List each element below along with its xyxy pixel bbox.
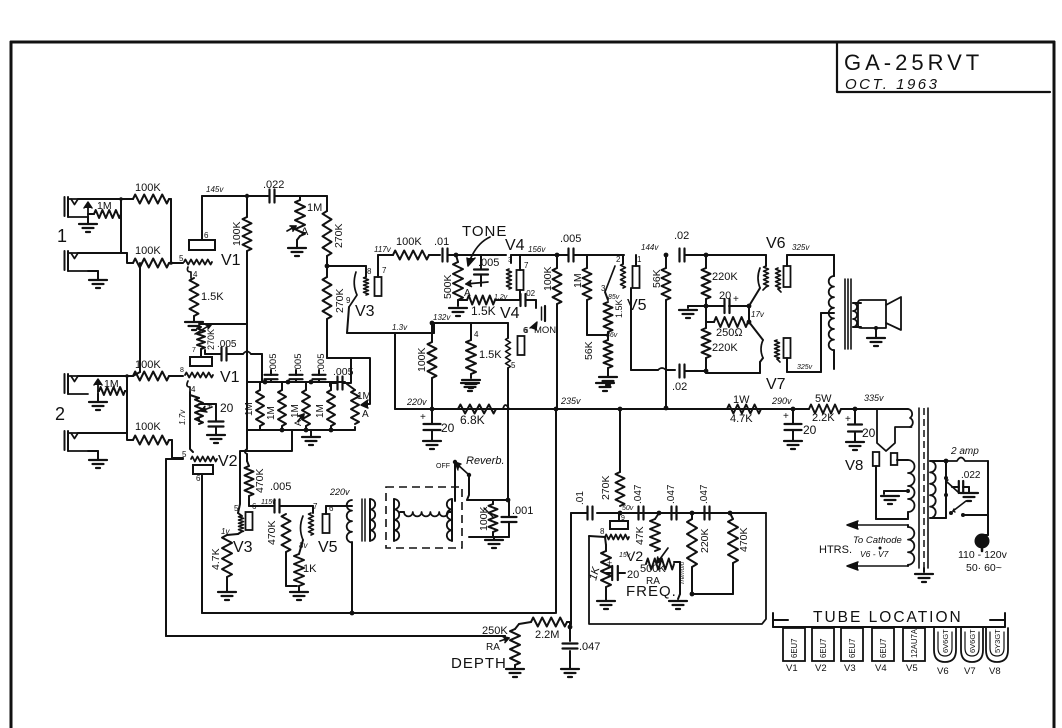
svg-text:100K: 100K — [135, 359, 161, 371]
wire plate up — [378, 255, 393, 277]
svg-text:V2: V2 — [815, 663, 827, 674]
wire bank right — [343, 358, 370, 408]
capacitor .005 bank1 — [265, 354, 280, 383]
svg-text:.047: .047 — [699, 484, 710, 504]
resistor 1M b3 — [290, 390, 310, 426]
wire — [607, 332, 609, 340]
wire — [88, 199, 121, 214]
svg-text:V6: V6 — [937, 666, 949, 677]
svg-text:1: 1 — [637, 255, 642, 264]
ground v1b — [207, 435, 225, 443]
jack J1a — [65, 197, 89, 217]
svg-text:2: 2 — [616, 255, 621, 264]
svg-text:.005: .005 — [293, 354, 304, 373]
capacitor .022 — [263, 179, 284, 203]
wire — [169, 375, 183, 377]
svg-text:V5: V5 — [318, 539, 338, 556]
wire — [587, 255, 608, 335]
resistor 4.7K 1W — [727, 394, 761, 425]
tube V2 6EU7 — [812, 628, 834, 674]
svg-text:HTRS.: HTRS. — [819, 544, 852, 556]
svg-text:6EU7: 6EU7 — [790, 638, 799, 658]
vertical x202 to reverb return — [202, 611, 555, 616]
svg-text:4.7K: 4.7K — [730, 413, 753, 425]
ground — [79, 217, 97, 232]
svg-text:7: 7 — [192, 347, 196, 354]
triode V4a cathode — [517, 255, 530, 290]
svg-text:A: A — [301, 226, 309, 238]
svg-text:1W: 1W — [733, 394, 750, 406]
svg-text:5: 5 — [234, 504, 239, 513]
wire — [526, 300, 536, 308]
svg-text:+: + — [607, 558, 612, 568]
wire — [705, 358, 707, 373]
jack J2b — [65, 431, 89, 451]
label RA depth — [486, 642, 500, 653]
wire box top grid — [589, 536, 605, 537]
resistor 100K reverb — [478, 504, 498, 532]
wire 132v line — [433, 313, 508, 323]
svg-text:.02: .02 — [672, 381, 687, 393]
svg-text:1K: 1K — [303, 563, 317, 575]
wire — [78, 376, 133, 440]
ground 022 — [960, 493, 978, 501]
svg-text:100K: 100K — [416, 347, 428, 372]
power core — [919, 408, 928, 568]
ground 047 — [561, 669, 579, 677]
resistor 1.5K V4b — [466, 330, 502, 374]
svg-text:+: + — [733, 294, 739, 305]
b+ rail left — [395, 407, 727, 412]
label 15v — [619, 552, 631, 559]
resistor 1K — [294, 554, 317, 586]
wire hop 508 — [503, 405, 509, 409]
ground freq — [669, 601, 687, 609]
wire — [169, 440, 183, 458]
svg-text:5W: 5W — [815, 393, 832, 405]
triode V6 plate — [784, 255, 791, 287]
svg-text:6EU7: 6EU7 — [879, 638, 888, 658]
wire grid V3a — [327, 266, 372, 277]
wire to V6 grid — [706, 255, 766, 266]
triode V2a plate — [193, 465, 213, 483]
wire 100K down — [246, 251, 248, 430]
triode V5a grid — [616, 255, 626, 288]
wire v5b plate — [326, 487, 350, 514]
svg-text:2.2K: 2.2K — [812, 412, 835, 424]
svg-text:V1: V1 — [220, 369, 240, 386]
wire primary bottom — [930, 513, 946, 518]
tone arrow — [467, 237, 490, 266]
capacitor .005 v1b — [205, 339, 237, 361]
tank coil right — [447, 499, 452, 541]
ground pot — [288, 236, 306, 256]
label V6 — [766, 235, 810, 252]
svg-text:1.5K: 1.5K — [479, 349, 502, 361]
svg-text:5: 5 — [511, 361, 516, 370]
jack J2a — [65, 374, 89, 394]
svg-text:V1: V1 — [221, 252, 241, 269]
capacitor 20 vib — [606, 558, 639, 581]
label V7 — [766, 364, 813, 393]
resistor 470K v3b — [266, 514, 291, 552]
resistor 56K plate — [651, 268, 671, 300]
svg-text:.001: .001 — [512, 505, 533, 517]
tube V3 6EU7 — [841, 628, 863, 674]
svg-text:V3: V3 — [233, 539, 253, 556]
ground top b — [596, 383, 614, 391]
capacitor .047 vib3 — [699, 484, 710, 519]
svg-text:5: 5 — [182, 450, 187, 459]
svg-text:+: + — [845, 414, 851, 425]
svg-text:1M: 1M — [266, 406, 277, 420]
svg-text:220v: 220v — [329, 487, 350, 497]
wire — [431, 409, 433, 440]
ground depth — [506, 669, 524, 677]
output transformer secondary — [853, 303, 857, 327]
wire to V1 grid — [169, 261, 183, 265]
svg-text:15v: 15v — [619, 552, 631, 559]
freq box — [589, 513, 766, 624]
resistor 100K V1 plate — [231, 217, 252, 251]
rectifier V8 plate — [877, 409, 911, 451]
label V2 — [218, 453, 238, 470]
resistor 1.5K V4a — [467, 296, 496, 319]
triode V4b grid — [506, 338, 517, 370]
svg-text:20: 20 — [441, 421, 455, 435]
ground — [599, 368, 617, 385]
svg-text:100K: 100K — [135, 245, 161, 257]
svg-text:1.3v: 1.3v — [392, 323, 408, 332]
capacitor .005 v3b — [261, 481, 291, 513]
tube location bar — [773, 613, 1005, 627]
svg-text:335v: 335v — [864, 393, 884, 403]
svg-text:4: 4 — [191, 385, 196, 394]
wire — [876, 460, 908, 519]
capacitor .022 line — [952, 470, 981, 493]
wire — [98, 376, 127, 391]
svg-text:V4: V4 — [500, 305, 520, 322]
svg-text:A: A — [362, 409, 369, 420]
label 335v — [864, 393, 884, 403]
switch wire — [945, 461, 947, 513]
triode V3b grid — [234, 504, 244, 534]
ground fb — [679, 306, 706, 318]
svg-text:RA: RA — [486, 642, 500, 653]
svg-text:1.2v: 1.2v — [494, 294, 508, 301]
svg-text:+: + — [420, 412, 426, 423]
svg-text:270K: 270K — [600, 475, 612, 500]
svg-text:V8: V8 — [989, 666, 1001, 677]
triode V6 screen — [776, 268, 782, 292]
svg-text:V3: V3 — [355, 303, 375, 320]
wire plate rail — [202, 195, 268, 197]
svg-text:V6 - V7: V6 - V7 — [860, 549, 889, 559]
svg-text:.022: .022 — [961, 470, 981, 481]
ground — [218, 592, 236, 600]
wire vib line — [597, 511, 766, 516]
triode V5a cathode — [601, 266, 615, 293]
capacitor .047 vib1 — [633, 484, 644, 519]
pot 1M A — [287, 200, 322, 238]
resistor 6.8K — [458, 405, 496, 428]
svg-text:.047: .047 — [579, 641, 600, 653]
label OFF — [436, 463, 450, 470]
svg-text:5Y3GT: 5Y3GT — [993, 629, 1002, 653]
svg-text:110 - 120v: 110 - 120v — [958, 549, 1008, 561]
wire — [327, 266, 351, 358]
heater arrows — [847, 521, 908, 570]
resistor 1M ch1 — [94, 200, 121, 218]
label 220v — [406, 397, 427, 407]
title text GA-25RVT — [844, 50, 983, 75]
label 117v — [374, 245, 392, 254]
resistor cathode shared — [190, 395, 212, 424]
capacitor 20 first — [420, 412, 455, 435]
svg-text:1.5K: 1.5K — [201, 291, 224, 303]
wire bank feed down — [245, 430, 249, 466]
capacitor .047 vib2 — [666, 484, 677, 519]
wire v3b grid — [221, 527, 230, 536]
svg-text:1.5K: 1.5K — [471, 304, 496, 318]
capacitor 20 second — [783, 411, 817, 437]
svg-text:220K: 220K — [712, 342, 738, 354]
svg-text:V1: V1 — [786, 663, 798, 674]
svg-text:6: 6 — [196, 474, 201, 483]
label 50-60 — [966, 562, 1002, 574]
svg-text:250Ω: 250Ω — [716, 327, 743, 339]
V2b grid — [600, 527, 629, 540]
pot 250K depth — [500, 629, 520, 665]
wire pi out — [631, 288, 675, 370]
power hv top — [877, 409, 913, 427]
triode V5a plate — [633, 255, 643, 288]
wire — [567, 622, 572, 629]
capacitor .005 bank4 — [330, 366, 354, 390]
tube location header — [813, 609, 963, 626]
label 156v — [528, 245, 546, 254]
resistor 1M b5 — [347, 384, 371, 424]
tube V1 6EU7 — [783, 628, 805, 674]
resistor 56K tail — [583, 340, 613, 368]
label V1b — [220, 369, 240, 386]
capacitor 20 third — [845, 414, 876, 440]
capacitor .02 mon — [521, 289, 536, 306]
triode V4b cathode — [518, 326, 530, 355]
label 86v — [606, 332, 618, 339]
ground — [88, 271, 107, 288]
svg-text:220K: 220K — [712, 271, 738, 283]
svg-text:144v: 144v — [641, 243, 659, 252]
triode V1a plate — [189, 231, 215, 250]
resistor 470K vib — [728, 513, 750, 563]
reverb switch — [453, 460, 471, 501]
output transformer primary — [829, 255, 834, 369]
svg-text:To Cathode: To Cathode — [853, 535, 902, 546]
svg-text:.01: .01 — [575, 491, 586, 505]
label HTRS — [819, 544, 852, 556]
fuse 2 amp — [946, 446, 988, 461]
pot 500K freq — [640, 548, 674, 587]
spring inductor — [400, 512, 452, 516]
label 145v — [206, 185, 224, 194]
svg-text:OCT. 1963: OCT. 1963 — [845, 76, 940, 93]
wire freq — [674, 562, 680, 599]
svg-text:156v: 156v — [528, 245, 546, 254]
vertical x166 — [165, 459, 167, 636]
resistor 100K pi — [542, 266, 562, 304]
wire — [556, 255, 558, 408]
tube V8 5Y3GT — [986, 628, 1008, 677]
triode V1a grid — [179, 254, 212, 265]
resistor 47K — [634, 513, 660, 551]
svg-text:270K: 270K — [334, 288, 346, 313]
V8 pin b — [891, 453, 898, 465]
resistor 100K V4b — [416, 342, 437, 378]
label 85v — [608, 294, 620, 301]
arrow contact 2a — [94, 379, 102, 394]
svg-text:2.2M: 2.2M — [535, 629, 559, 641]
wire — [456, 255, 458, 306]
wire — [458, 290, 520, 301]
node — [325, 264, 330, 269]
wire cathode down — [347, 307, 349, 333]
wire 20 node — [706, 304, 765, 319]
speaker — [858, 297, 901, 330]
resistor 100K in1b — [133, 245, 169, 268]
wire 270K feed — [619, 409, 621, 472]
arrow contact — [84, 202, 92, 217]
wire — [275, 195, 295, 197]
svg-text:1: 1 — [57, 226, 67, 246]
capacitor .01 tone — [434, 236, 449, 262]
svg-text:6V6GT: 6V6GT — [941, 629, 950, 653]
wire — [448, 253, 506, 258]
wire plate top — [201, 196, 203, 240]
wire — [169, 199, 171, 263]
wire — [492, 500, 494, 537]
label V3 — [355, 303, 375, 320]
wire vib left — [571, 512, 585, 514]
wire — [792, 409, 794, 440]
resistor 270K v1b — [195, 324, 216, 350]
wire — [78, 374, 133, 378]
svg-text:4.7K: 4.7K — [210, 548, 222, 570]
resistor 100K in2a — [133, 359, 169, 381]
svg-text:5: 5 — [179, 254, 184, 263]
svg-text:.005: .005 — [316, 354, 327, 373]
wire — [761, 407, 809, 412]
ground bank — [302, 430, 320, 445]
svg-text:6EU7: 6EU7 — [819, 638, 828, 658]
triode V7 grid — [775, 340, 781, 362]
capacitor .005 tone — [474, 255, 499, 286]
wire bank tops — [260, 382, 331, 390]
svg-text:TUBE LOCATION: TUBE LOCATION — [813, 609, 963, 626]
svg-text:V7: V7 — [766, 376, 786, 393]
capacitor .005 bank3 — [313, 354, 328, 383]
svg-text:470K: 470K — [254, 468, 266, 493]
svg-text:.005: .005 — [268, 354, 279, 373]
svg-text:.005: .005 — [270, 481, 291, 493]
primary winding — [930, 461, 936, 518]
svg-text:8: 8 — [180, 367, 184, 374]
svg-text:+: + — [783, 411, 789, 422]
label 144v — [641, 243, 659, 252]
svg-text:117v: 117v — [374, 245, 392, 254]
resistor 250 ohm — [714, 317, 748, 339]
wire 220K bottom — [690, 563, 733, 596]
svg-text:20: 20 — [862, 426, 876, 440]
wire — [706, 306, 751, 324]
reverb core — [362, 499, 365, 541]
tube V7 6V6GT — [961, 628, 983, 677]
pot wiper — [464, 281, 488, 300]
switch arm 1 — [944, 476, 958, 492]
wire sec — [853, 303, 861, 327]
label V8 — [845, 457, 863, 474]
svg-text:1.7v: 1.7v — [178, 409, 187, 425]
resistor 220K v6 — [702, 268, 739, 299]
label 50v — [622, 505, 634, 512]
svg-text:.01: .01 — [434, 236, 449, 248]
ground tone — [449, 308, 467, 316]
wire v2 grid left — [166, 458, 183, 460]
triode V1b cathode — [187, 381, 196, 394]
resistor 270K b — [323, 277, 347, 319]
resistor 1M b2 — [266, 390, 286, 426]
ground — [846, 442, 864, 450]
triode V4a grid — [507, 269, 512, 289]
wire 395 — [394, 333, 396, 409]
label V1 — [221, 252, 241, 269]
ground — [89, 394, 107, 410]
svg-text:115v: 115v — [261, 499, 276, 506]
triode V6 grid — [763, 266, 769, 290]
svg-text:1M: 1M — [357, 391, 371, 402]
capacitor 20 V1b — [199, 401, 234, 434]
capacitor .005 pi — [560, 233, 581, 262]
svg-text:DEPTH: DEPTH — [451, 655, 507, 672]
triode V3a grid — [364, 277, 369, 295]
title box — [837, 42, 1050, 92]
wire — [514, 665, 516, 668]
svg-text:50· 60~: 50· 60~ — [966, 562, 1002, 574]
plug — [975, 534, 990, 552]
wire V6 plate top — [787, 255, 834, 276]
svg-text:.02: .02 — [674, 230, 689, 242]
svg-text:270K: 270K — [206, 329, 216, 350]
wire — [430, 321, 435, 409]
tube V4 6EU7 — [872, 628, 894, 674]
wire depth line — [166, 635, 505, 637]
svg-text:3: 3 — [508, 257, 512, 264]
resistor 220K vib — [687, 513, 711, 567]
triode V7 plate — [784, 338, 791, 358]
wire — [841, 407, 877, 412]
svg-text:132v: 132v — [433, 313, 451, 322]
wire primary top fuse — [930, 459, 948, 464]
svg-text:A: A — [293, 420, 303, 426]
label V5 — [627, 297, 647, 314]
capacitor .047 depth — [563, 627, 601, 668]
triode V3b plate — [246, 502, 258, 530]
wire 100K top — [245, 194, 249, 217]
svg-text:8: 8 — [367, 267, 372, 276]
resistor 1M b1 — [244, 390, 264, 426]
svg-text:12AU7A: 12AU7A — [910, 628, 919, 658]
resistor 270K a — [323, 211, 346, 256]
